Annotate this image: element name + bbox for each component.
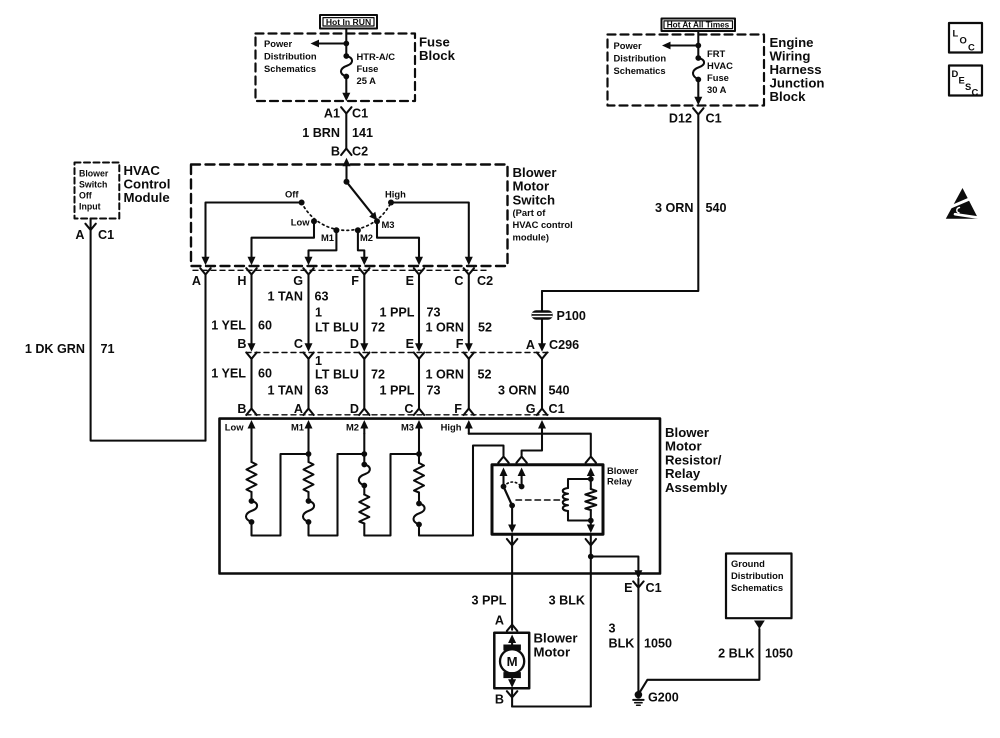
value label 3 BLK — [549, 594, 585, 608]
svg-text:1 TAN: 1 TAN — [268, 290, 303, 304]
wire 540 ORN from D12 to P100 — [542, 115, 698, 292]
connector C296 pin E — [406, 337, 425, 359]
wire M2 to pin F — [358, 230, 368, 265]
icon ESD warning triangle — [946, 188, 980, 219]
connector C296 pin C — [294, 337, 314, 359]
motor brush bottom — [503, 672, 521, 678]
node coil top — [588, 476, 594, 482]
svg-text:3 PPL: 3 PPL — [472, 594, 507, 608]
svg-text:G: G — [293, 274, 303, 288]
svg-text:S: S — [965, 81, 971, 92]
svg-text:63: 63 — [315, 384, 329, 398]
svg-text:D12: D12 — [669, 112, 692, 126]
svg-text:Low: Low — [291, 217, 310, 228]
svg-text:A: A — [75, 228, 84, 242]
wire branch to pin E — [591, 557, 643, 579]
label Blower Motor Resistor/Relay Assembly — [665, 425, 728, 495]
svg-text:540: 540 — [549, 384, 570, 398]
svg-text:Blower: Blower — [607, 465, 639, 476]
svg-text:Relay: Relay — [607, 476, 633, 487]
svg-text:Hot At All Times: Hot At All Times — [667, 21, 730, 30]
svg-text:1 YEL: 1 YEL — [211, 319, 246, 333]
svg-text:F: F — [454, 402, 462, 416]
value label 1 PPL 73 upper — [380, 306, 441, 320]
svg-text:Schematics: Schematics — [731, 582, 783, 593]
relay suppression resistor — [585, 479, 596, 533]
connector C2 pin E — [406, 268, 425, 288]
svg-text:C2: C2 — [352, 145, 368, 159]
wire Off to pin A — [202, 203, 302, 266]
node: feed junction — [695, 43, 701, 49]
pin High entry arrow — [441, 420, 473, 434]
svg-text:G200: G200 — [648, 691, 679, 705]
svg-text:High: High — [385, 189, 406, 200]
connector C2 pin F — [351, 268, 369, 288]
svg-text:module): module) — [513, 231, 549, 242]
svg-text:P100: P100 — [557, 309, 586, 323]
svg-text:(Part of: (Part of — [513, 207, 547, 218]
pin M1 entry arrow — [291, 420, 313, 434]
pin M2 entry arrow — [346, 420, 368, 434]
motor brush top — [503, 645, 521, 651]
svg-text:73: 73 — [427, 384, 441, 398]
svg-text:M1: M1 — [291, 422, 304, 433]
motor armature M — [500, 649, 524, 673]
svg-text:G: G — [526, 402, 536, 416]
node: feed junction — [343, 41, 349, 47]
svg-text:C296: C296 — [549, 338, 579, 352]
svg-text:1 PPL: 1 PPL — [380, 306, 415, 320]
svg-text:Power: Power — [264, 38, 292, 49]
wire: fuse output arrow to A1 — [342, 77, 350, 102]
ground distribution tap (solid triangle) — [754, 621, 765, 630]
value label 3 BLK 1050 — [609, 622, 673, 651]
resistor branch Low: lead — [250, 434, 252, 463]
wire 63 TAN lower — [307, 359, 309, 409]
arrow to power distribution schematics (right) — [662, 42, 698, 50]
relay switch blade — [504, 487, 516, 509]
svg-text:A: A — [192, 274, 201, 288]
relay coil pin arrow — [587, 468, 595, 480]
svg-text:1 YEL: 1 YEL — [211, 367, 246, 381]
wire 73 PPL lower — [418, 359, 420, 409]
value label 1 LT BLU 72 upper — [315, 306, 385, 335]
motor input arrow — [508, 635, 516, 646]
svg-text:A: A — [294, 402, 303, 416]
thermal limiter Low — [246, 492, 257, 525]
relay ground fork — [586, 539, 596, 545]
svg-text:H: H — [237, 274, 246, 288]
resistor R-M1 — [304, 462, 314, 492]
wire 63 TAN upper — [305, 275, 313, 352]
tag "Hot At All Times" — [662, 19, 736, 32]
relay NO pin arrow — [518, 468, 526, 487]
blower motor resistor/relay assembly box — [220, 419, 661, 574]
value label 1 ORN 52 upper — [426, 321, 493, 335]
switch arm (wiper on M3) — [347, 182, 378, 221]
svg-text:C1: C1 — [352, 107, 368, 121]
svg-text:3 ORN: 3 ORN — [498, 384, 537, 398]
blower motor switch dashed box — [191, 165, 508, 267]
svg-text:3: 3 — [609, 622, 616, 636]
svg-text:3 BLK: 3 BLK — [549, 594, 585, 608]
svg-text:Input: Input — [79, 202, 101, 212]
label Blower Motor Switch — [513, 165, 573, 242]
svg-text:Blower: Blower — [534, 631, 578, 646]
connector C1 pin D — [350, 402, 370, 416]
engine junction block dashed box — [608, 35, 765, 106]
arrow into switch from B/C2 — [343, 158, 351, 182]
svg-text:1 DK GRN: 1 DK GRN — [25, 342, 85, 356]
svg-text:73: 73 — [427, 306, 441, 320]
svg-text:HVAC: HVAC — [707, 60, 733, 71]
svg-text:Distribution: Distribution — [614, 53, 667, 64]
wire G junction left branch to relay NO contact — [522, 434, 542, 456]
wire High to pin C — [391, 203, 473, 266]
svg-text:FRT: FRT — [707, 48, 725, 59]
wire 1050 BLK (2 BLK) to G200 — [640, 629, 760, 693]
svg-text:M3: M3 — [382, 219, 395, 230]
relay coil L1 — [563, 479, 591, 521]
svg-text:Distribution: Distribution — [731, 570, 784, 581]
svg-text:HTR-A/C: HTR-A/C — [357, 51, 396, 62]
wire motor B to ground bus — [512, 705, 591, 707]
relay mechanical link (dashed) — [516, 499, 561, 501]
relay NC pin arrow — [500, 468, 508, 487]
connector C296 pin D — [350, 337, 370, 359]
connector C1 pin F — [454, 402, 474, 416]
wire 73 PPL upper — [415, 275, 423, 352]
wire 3 BLK relay to ground bus — [590, 534, 592, 706]
svg-text:30 A: 30 A — [707, 84, 727, 95]
ground distribution schematics box — [726, 554, 792, 619]
svg-text:72: 72 — [371, 368, 385, 382]
node M2 junction — [361, 451, 367, 457]
relay contact node NC — [501, 484, 507, 490]
svg-text:A: A — [526, 338, 535, 352]
relay contact node NO — [519, 484, 525, 490]
wire 60 YEL upper — [248, 275, 256, 352]
fuse block dashed box — [256, 34, 416, 102]
wire: hot feed into junction block — [697, 31, 699, 58]
wire 540 ORN lower — [541, 359, 543, 409]
wire 141 BRN — [345, 114, 347, 149]
wire M2 bottom to M3 node — [364, 454, 419, 536]
value label 3 ORN 540 (feed) — [655, 201, 727, 215]
svg-text:1: 1 — [315, 306, 322, 320]
label Blower Relay — [607, 465, 639, 487]
svg-text:Switch: Switch — [79, 180, 107, 190]
relay pin fork (NO) — [516, 457, 526, 463]
wire Low bottom to M1 node — [252, 454, 309, 536]
connector C2 pin G — [293, 268, 313, 288]
connector C296 pin B — [237, 337, 256, 359]
value label 1 DK GRN 71 — [25, 342, 115, 356]
svg-text:M3: M3 — [401, 422, 414, 433]
svg-text:C1: C1 — [98, 228, 114, 242]
svg-text:1 PPL: 1 PPL — [380, 384, 415, 398]
svg-text:D: D — [350, 402, 359, 416]
connector A/C296 (P100 wire) — [526, 338, 579, 359]
svg-text:Power: Power — [614, 40, 642, 51]
svg-text:1 ORN: 1 ORN — [426, 368, 465, 382]
svg-text:Blower: Blower — [79, 169, 109, 179]
svg-text:C2: C2 — [477, 274, 493, 288]
wire High to G junction — [469, 433, 542, 435]
svg-text:1: 1 — [315, 354, 322, 368]
connector B (blower motor) — [495, 688, 517, 706]
connector D12/C1 — [669, 108, 722, 125]
icon LOC box — [949, 23, 982, 53]
connector A1/C1 — [324, 107, 368, 121]
svg-text:25 A: 25 A — [357, 75, 377, 86]
wire 72 LT BLU upper — [360, 275, 368, 352]
label HVAC Control Module — [124, 163, 171, 205]
wire 52 ORN lower — [468, 359, 470, 409]
node Off — [285, 189, 305, 206]
svg-text:B: B — [237, 337, 246, 351]
svg-text:Block: Block — [770, 89, 807, 104]
text Power Distribution Schematics (right) — [614, 40, 667, 76]
value label 1 LT BLU 72 lower — [315, 354, 385, 382]
wire: hot feed into fuse block — [345, 29, 347, 57]
svg-text:1 TAN: 1 TAN — [268, 384, 303, 398]
value label 1 TAN 63 upper — [268, 290, 329, 304]
connector C2 pin A — [192, 268, 211, 288]
node Low — [291, 217, 317, 228]
svg-text:A1: A1 — [324, 107, 340, 121]
svg-text:Off: Off — [285, 189, 299, 200]
arrow to power distribution schematics — [311, 40, 347, 48]
connector A/C1 (HVAC module) — [75, 219, 114, 243]
wire 71 DK GRN — [91, 230, 206, 441]
pin G entry arrow — [538, 420, 546, 434]
svg-text:O: O — [960, 35, 967, 46]
svg-text:Switch: Switch — [513, 192, 556, 207]
connector C1 pin A — [294, 402, 314, 416]
resistor R-M3 — [414, 463, 424, 493]
connector E/C1 — [624, 581, 662, 595]
svg-text:1 ORN: 1 ORN — [426, 321, 465, 335]
wire M1 bottom to M2 node — [309, 454, 365, 536]
node coil bottom — [588, 518, 594, 524]
value label 2 BLK 1050 — [718, 647, 793, 661]
svg-text:LT BLU: LT BLU — [315, 321, 359, 335]
tag "Hot In RUN" — [320, 15, 377, 29]
svg-text:Fuse: Fuse — [357, 63, 379, 74]
svg-text:52: 52 — [478, 368, 492, 382]
resistor branch M3: lead — [418, 434, 420, 464]
connector C1 pin G — [526, 402, 547, 416]
pin M3 entry arrow — [401, 420, 423, 434]
node M3 — [374, 218, 395, 230]
resistor R-Low — [247, 462, 257, 492]
value label 1 BRN 141 — [302, 126, 373, 140]
switch position arc (dotted) — [302, 203, 391, 231]
svg-text:HVAC control: HVAC control — [513, 219, 573, 230]
svg-text:Ground: Ground — [731, 558, 765, 569]
svg-text:C: C — [972, 87, 979, 98]
svg-text:Schematics: Schematics — [264, 63, 316, 74]
svg-text:60: 60 — [258, 319, 272, 333]
fuse FRT HVAC 30 A symbol — [693, 55, 704, 82]
svg-text:C1: C1 — [549, 402, 565, 416]
svg-text:Module: Module — [124, 190, 170, 205]
wire 1050 BLK to G200 — [637, 579, 639, 695]
svg-text:71: 71 — [101, 342, 115, 356]
connector name C1 — [549, 402, 565, 416]
connector C2 pin H — [237, 268, 256, 288]
value label FRT HVAC Fuse 30 A — [707, 48, 733, 95]
svg-text:F: F — [456, 337, 464, 351]
svg-text:52: 52 — [478, 321, 492, 335]
connector C1 pin B — [237, 402, 256, 416]
relay pin fork (NC) — [498, 457, 508, 463]
wire G junction right branch to relay coil pin — [542, 434, 591, 456]
svg-text:540: 540 — [706, 201, 727, 215]
svg-text:Schematics: Schematics — [614, 65, 666, 76]
ground G200 — [633, 691, 679, 706]
svg-text:B: B — [495, 693, 504, 707]
connector row C2 dashed line — [193, 269, 490, 271]
svg-text:C1: C1 — [706, 112, 722, 126]
svg-text:M1: M1 — [321, 232, 334, 243]
svg-text:Fuse: Fuse — [707, 72, 729, 83]
fuse HTR-A/C 25 A symbol — [341, 53, 352, 79]
connector A (blower motor) — [495, 614, 517, 631]
connector row C296 dashed line — [246, 352, 548, 354]
blower motor M1 box — [494, 633, 529, 689]
node M2 — [355, 227, 373, 243]
wire M3 bottom to relay NC contact — [419, 446, 504, 536]
svg-text:Off: Off — [79, 191, 92, 201]
svg-text:E: E — [959, 75, 965, 86]
wire Low to pin H — [248, 221, 315, 265]
svg-text:E: E — [624, 581, 632, 595]
resistor R-M2 — [359, 486, 369, 524]
value label 3 ORN 540 lower — [498, 384, 570, 398]
connector row C1 dashed line — [246, 414, 549, 416]
connector B/C2 — [331, 145, 368, 159]
svg-text:C1: C1 — [646, 581, 662, 595]
grommet P100 — [532, 291, 586, 346]
wire 72 LT BLU lower — [363, 359, 365, 409]
svg-text:1 BRN: 1 BRN — [302, 126, 340, 140]
svg-text:Low: Low — [225, 422, 244, 433]
resistor branch M1: lead — [307, 434, 309, 463]
pin Low entry arrow — [225, 420, 256, 434]
svg-text:L: L — [953, 28, 959, 39]
node M1 junction — [306, 451, 312, 457]
svg-text:3 ORN: 3 ORN — [655, 201, 694, 215]
connector C1 pin C — [404, 402, 424, 416]
label Fuse Block — [419, 35, 456, 64]
value label 1 YEL 60 upper — [211, 319, 272, 333]
svg-text:M2: M2 — [360, 232, 373, 243]
value label HTR-A/C Fuse 25 A — [357, 51, 396, 86]
svg-text:63: 63 — [315, 290, 329, 304]
svg-text:D: D — [350, 337, 359, 351]
svg-text:M: M — [507, 654, 518, 669]
text Power Distribution Schematics (left) — [264, 38, 317, 74]
svg-text:B: B — [237, 402, 246, 416]
node ground branch junction — [588, 554, 594, 560]
motor output arrow — [508, 678, 516, 688]
wire: fuse output arrow to D12 — [694, 80, 702, 106]
svg-text:M2: M2 — [346, 422, 359, 433]
svg-text:1050: 1050 — [644, 637, 672, 651]
connector C296 pin F — [456, 337, 474, 359]
relay pin fork (coil) — [586, 457, 596, 463]
thermal limiter M1 — [303, 492, 314, 525]
svg-text:72: 72 — [371, 321, 385, 335]
wire 52 ORN upper — [465, 275, 473, 352]
svg-text:LT BLU: LT BLU — [315, 368, 359, 382]
svg-text:B: B — [331, 145, 340, 159]
svg-text:60: 60 — [258, 367, 272, 381]
relay common wire down with arrow — [508, 506, 516, 534]
switch pivot node — [344, 179, 350, 185]
svg-text:C: C — [404, 402, 413, 416]
node M3 junction — [416, 451, 422, 457]
wire M3 to pin E — [377, 221, 423, 265]
label Engine Wiring Harness Junction Block — [770, 35, 825, 104]
svg-text:F: F — [351, 274, 359, 288]
label Blower Motor — [534, 631, 578, 660]
svg-text:2 BLK: 2 BLK — [718, 647, 754, 661]
svg-text:E: E — [406, 274, 414, 288]
wire 60 YEL lower — [250, 359, 252, 409]
thermal limiter M2 — [359, 434, 370, 489]
svg-text:D: D — [952, 68, 959, 79]
svg-text:Block: Block — [419, 48, 456, 63]
value label 1 ORN 52 lower — [426, 368, 492, 382]
thermal limiter M3 — [413, 493, 424, 528]
svg-text:C: C — [294, 337, 303, 351]
svg-text:Hot In RUN: Hot In RUN — [326, 17, 371, 27]
icon DESC box — [949, 66, 982, 98]
wire pin A down (to off input link) — [204, 275, 206, 441]
svg-text:C: C — [968, 42, 975, 53]
svg-text:A: A — [495, 614, 504, 628]
wire M1 to pin G — [305, 230, 337, 265]
HVAC control module dashed box — [75, 163, 120, 219]
relay contact arc (dotted) — [504, 482, 522, 487]
svg-text:Assembly: Assembly — [665, 480, 728, 495]
svg-text:C: C — [454, 274, 463, 288]
connector name C2 — [477, 274, 493, 288]
svg-text:High: High — [441, 422, 462, 433]
value label 3 PPL — [472, 594, 507, 608]
blower relay box — [492, 465, 603, 534]
svg-text:Motor: Motor — [534, 645, 571, 660]
svg-text:E: E — [406, 337, 414, 351]
connector C2 pin C — [454, 268, 474, 288]
value label 1 PPL 73 lower — [380, 384, 441, 398]
node M1 — [321, 227, 339, 243]
wire 3 PPL relay to motor — [511, 534, 513, 630]
value label 1 YEL 60 lower — [211, 367, 272, 381]
svg-text:141: 141 — [352, 126, 373, 140]
value label 1 TAN 63 lower — [268, 384, 329, 398]
relay output fork (to motor) — [507, 539, 517, 545]
svg-text:1050: 1050 — [765, 647, 793, 661]
svg-text:BLK: BLK — [609, 637, 635, 651]
svg-text:Distribution: Distribution — [264, 51, 317, 62]
node High — [385, 189, 406, 206]
